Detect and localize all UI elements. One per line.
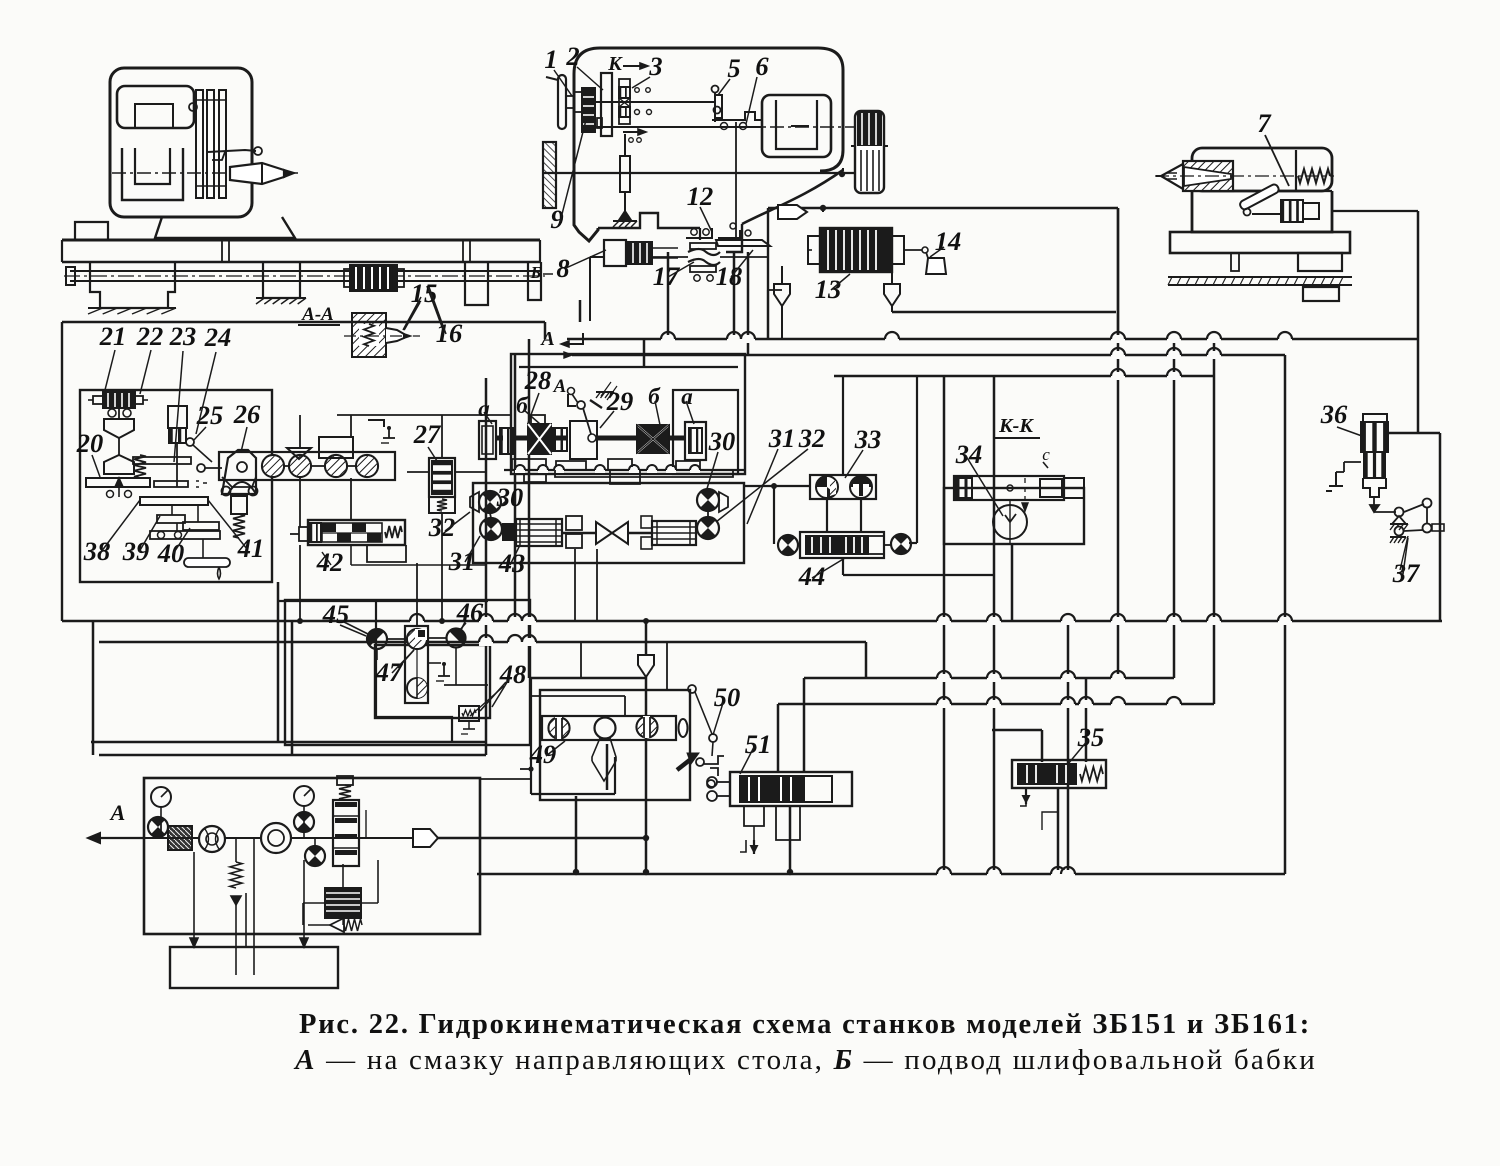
svg-text:44: 44 xyxy=(798,561,826,591)
svg-text:49: 49 xyxy=(529,739,557,769)
svg-text:38: 38 xyxy=(83,536,111,566)
svg-text:37: 37 xyxy=(1392,558,1421,588)
svg-text:28: 28 xyxy=(524,365,552,395)
svg-text:23: 23 xyxy=(169,321,197,351)
svg-text:29: 29 xyxy=(606,386,634,416)
svg-text:А — на смазку направляющих сто: А — на смазку направляющих стола, Б — по… xyxy=(293,1044,1317,1076)
svg-text:22: 22 xyxy=(136,321,164,351)
svg-text:33: 33 xyxy=(854,424,882,454)
svg-text:5: 5 xyxy=(727,53,740,83)
svg-text:47: 47 xyxy=(375,657,404,687)
svg-text:А: А xyxy=(109,800,126,825)
svg-text:К-К: К-К xyxy=(998,415,1034,437)
svg-text:51: 51 xyxy=(745,729,772,759)
svg-text:15: 15 xyxy=(411,278,438,308)
svg-text:46: 46 xyxy=(456,597,484,627)
svg-text:45: 45 xyxy=(322,599,350,629)
svg-text:Б: Б xyxy=(530,263,542,282)
svg-text:17: 17 xyxy=(653,261,681,291)
svg-text:с: с xyxy=(1042,445,1050,464)
svg-text:16: 16 xyxy=(436,318,463,348)
svg-text:32: 32 xyxy=(798,423,826,453)
svg-text:50: 50 xyxy=(714,682,741,712)
svg-text:26: 26 xyxy=(233,399,261,429)
svg-text:34: 34 xyxy=(955,439,983,469)
svg-text:1: 1 xyxy=(544,44,557,74)
svg-text:б: б xyxy=(648,384,661,409)
svg-text:6: 6 xyxy=(755,51,769,81)
svg-text:3: 3 xyxy=(648,51,662,81)
svg-text:27: 27 xyxy=(413,419,442,449)
svg-text:20: 20 xyxy=(76,428,104,458)
svg-text:13: 13 xyxy=(815,274,842,304)
svg-text:К: К xyxy=(607,53,623,75)
svg-text:А: А xyxy=(553,376,567,397)
svg-text:48: 48 xyxy=(499,659,527,689)
svg-text:12: 12 xyxy=(687,181,714,211)
svg-text:б: б xyxy=(516,393,529,418)
svg-text:21: 21 xyxy=(99,321,127,351)
svg-text:7: 7 xyxy=(1257,108,1272,138)
svg-text:18: 18 xyxy=(716,261,743,291)
svg-text:41: 41 xyxy=(237,533,265,563)
svg-text:36: 36 xyxy=(1320,399,1348,429)
svg-text:24: 24 xyxy=(204,322,232,352)
svg-text:30: 30 xyxy=(708,426,736,456)
svg-text:31: 31 xyxy=(768,423,796,453)
svg-text:30: 30 xyxy=(496,482,524,512)
svg-text:А: А xyxy=(539,328,554,350)
svg-text:Рис. 22. Гидрокинематическая с: Рис. 22. Гидрокинематическая схема станк… xyxy=(299,1009,1311,1040)
svg-text:9: 9 xyxy=(550,204,563,234)
